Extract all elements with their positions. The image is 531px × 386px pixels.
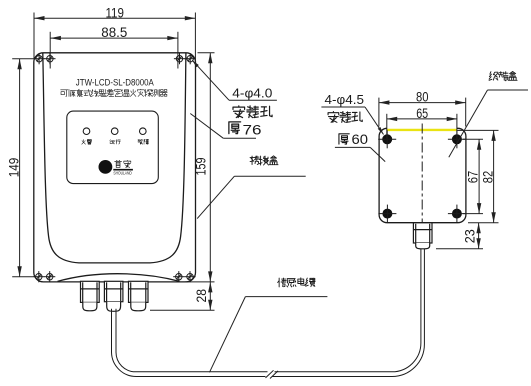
terminal box yellow strip (covers top edge) [387,127,457,129]
converter box bottom lip curve [58,274,180,282]
LED run [111,128,118,135]
dim 119 line [34,17,195,19]
mounting hole top-right inner (left box) [176,56,182,62]
dim 149 line [19,59,21,277]
label hou of hou60 [339,134,349,144]
leader 4-phi4.5 mounting holes [321,106,365,108]
sensor cable to terminal box (right segment) [275,249,421,372]
label zhongduanhe (terminal box) [489,72,517,81]
cable gland middle [104,281,123,301]
cable gland right [129,281,149,302]
converter box outer shell [34,53,196,282]
label huojing (fire alarm) [82,139,92,144]
product name chinese line [61,89,168,96]
dim 23 line [478,223,480,249]
dim 65 extension lines [386,114,388,139]
svg-text:23: 23 [462,229,477,243]
svg-text:JTW-LCD-SL-D8000A: JTW-LCD-SL-D8000A [76,78,155,88]
label hou of hou76 [229,122,241,134]
dim 80 line [379,102,466,104]
svg-text:SHOULAND: SHOULAND [113,170,131,175]
leader hou60 (thickness 60) [335,146,370,148]
mounting hole top-right outer (left box) [187,56,193,62]
dim 67 line [478,139,480,213]
mounting hole bottom-left inner (left box) [47,274,53,280]
leader zhuanhuanhe (converter box) [234,175,305,177]
svg-text:67: 67 [466,171,481,184]
label anzhuangkong (mounting hole) right [328,112,362,123]
mounting hole top-left inner (left box) [47,56,53,62]
svg-text:88.5: 88.5 [101,25,127,40]
terminal box screw top-left [382,134,392,144]
cable gland left [81,281,100,302]
dim 28 extension line (gland bottom) [150,309,215,311]
converter box cover face outline [43,53,186,263]
svg-text:60: 60 [352,132,369,147]
terminal box screw top-right [452,134,462,144]
mounting hole bottom-left outer (left box) [36,274,42,280]
terminal box outline [379,128,466,222]
dim 159 line [209,53,211,282]
leader hou76 (thickness 76) [223,137,256,139]
dim 28 line [209,282,211,310]
svg-text:159: 159 [194,158,209,176]
logo dot [99,160,113,174]
label guzhang (fault) [138,139,149,144]
mounting hole top-left outer (left box) [36,56,42,62]
terminal box centre dashed line [421,124,423,223]
svg-text:4-φ4.5: 4-φ4.5 [325,92,365,107]
dim 82 extension lines [458,129,499,131]
LED fire [83,128,90,135]
leader zhongduanhe (terminal box) [488,89,529,91]
dim 82 line [493,130,495,222]
dim 65 line [387,118,458,120]
label yunxing (running) [110,140,121,144]
cable break mark [266,370,274,378]
dim 149 extension lines [12,58,34,60]
logo shouan characters [115,160,131,167]
mounting hole bottom-right outer (left box) [187,274,193,280]
leader 4-phi4.0 mounting holes [229,99,277,101]
dim 159 extension lines [198,52,215,54]
svg-text:82: 82 [480,171,495,184]
mounting hole bottom-right inner (left box) [176,274,182,280]
dim 80 extension lines [378,98,380,127]
dim 67 extension lines [463,138,483,140]
sensor cable from converter box (left segment) [116,309,268,372]
dim 88.5 extension lines [49,32,51,69]
label anzhuangkong (mounting hole) left [233,106,272,118]
svg-text:119: 119 [105,5,124,20]
svg-text:28: 28 [194,289,209,303]
dim 119 extension lines [33,13,35,65]
logo underline [113,169,133,171]
svg-text:65: 65 [416,106,428,121]
svg-text:4-φ4.0: 4-φ4.0 [232,85,272,100]
terminal box screw bottom-right [452,209,462,219]
svg-text:149: 149 [7,158,22,178]
dim 23 extension line [436,248,483,250]
label zhuanhuanhe (converter box) [250,156,278,165]
svg-text:80: 80 [416,89,429,104]
leader chuangan cable (sensor cable) [245,296,327,298]
terminal box screw bottom-left [382,209,392,219]
label chuangandianlan (sensor cable) [278,278,315,287]
LED fault [140,128,147,135]
indicator panel window [67,111,159,184]
terminal box cable gland [413,223,432,243]
svg-text:76: 76 [243,121,262,137]
dim 88.5 line [50,37,177,39]
